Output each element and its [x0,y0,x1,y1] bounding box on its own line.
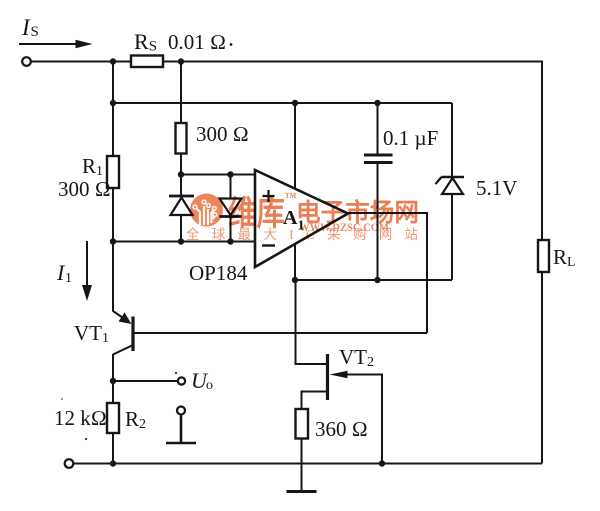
wire: diode D1 stubs [180,175,182,242]
wire: lower rail y280 [295,279,452,281]
ground: test point ground bar [166,415,196,444]
arrow I1 [86,241,88,287]
watermark logo circle [190,194,223,227]
svg-text:R2: R2 [125,407,146,432]
zener diode 5.1V [436,177,465,194]
wire: right side RL bottom to bottom-right corner [541,272,543,464]
resistor RS [131,56,163,68]
svg-text:0.01 Ω: 0.01 Ω [168,30,226,54]
wire: VT2 drain from lower rail [296,280,327,364]
svg-text:R1: R1 [82,154,103,179]
transistor VT1 [113,311,133,355]
terminal: input [22,57,31,66]
scan speck left margin [61,398,63,400]
resistor RL [538,240,549,272]
scan speck below 12k label [85,438,87,440]
wire: x295 supply drop behind op-amp [294,103,296,280]
wire: VT2 gate to ground rail [346,375,382,464]
svg-text:I: I [21,15,31,40]
svg-text:300 Ω: 300 Ω [58,177,111,201]
wire: diode D2 stubs [230,175,232,242]
wire: 360ohm to ground symbol [301,439,303,491]
VT1 emitter arrowhead [119,313,132,325]
svg-text:360 Ω: 360 Ω [315,417,368,441]
wire: supply rail y103 [113,102,452,104]
wire: x181 top rail to 300ohm resistor [180,62,182,124]
svg-text:1: 1 [65,271,72,286]
wire: op-amp output to x427 and down [348,213,427,333]
resistor 360ohm [296,409,309,439]
watermark [186,192,419,242]
wire: zener stubs x452 [451,103,453,280]
svg-text:5.1V: 5.1V [476,176,517,200]
resistor R2 [107,403,119,433]
op-amp U1 [255,170,348,267]
diode D2 [220,199,242,217]
wire: x113 VT1 collector to R2 [112,354,114,403]
terminal: Uo [178,377,185,384]
svg-text:VT2: VT2 [339,345,374,370]
wire: VT2 source to 360ohm [302,392,327,410]
svg-text:OP184: OP184 [189,261,248,285]
wire: x113 R2 bottom to ground rail [112,433,114,464]
svg-text:300 Ω: 300 Ω [196,122,249,146]
wire: top rail RS to top-right corner and down to RL [163,62,542,241]
wire: sense line x113 from top rail to R1 [112,62,114,157]
wire: x113 R1 bottom to VT1 emitter [112,188,114,312]
transistor VT2 [326,354,329,400]
wire: inverting input rail y241.5 [113,241,255,243]
wire: top rail input to RS [31,61,131,63]
ground: 360ohm ground bar [287,490,317,493]
arrow IS [19,43,78,45]
scan speck near Uo [175,372,177,374]
capacitor C 0.1uF [364,155,393,163]
terminal: test point [177,407,185,415]
wire: x181 300ohm to noninverting rail [180,154,182,175]
diode D1 [169,196,194,215]
terminal: bottom left [65,459,74,468]
resistor 300ohm upper [176,123,187,154]
svg-text:VT1: VT1 [74,321,109,346]
wire: capacitor stubs x377.5 [377,103,379,280]
wire: bottom ground rail [74,463,543,465]
svg-text:RL: RL [553,245,576,270]
svg-text:12 kΩ: 12 kΩ [54,406,107,430]
resistor R1 [107,156,119,188]
svg-text:0.1 µF: 0.1 µF [383,126,438,150]
op-amp minus pin mark [262,244,275,246]
wire: Uo tap [113,380,178,382]
svg-text:S: S [31,24,39,40]
svg-text:o: o [206,378,213,393]
wire: VT1 base line y333 [134,332,427,334]
svg-text:TM: TM [285,192,297,200]
VT2 gate arrowhead [330,371,348,379]
svg-text:RS: RS [134,29,157,55]
wire: noninverting input rail y174.5 [181,174,255,176]
op-amp plus pin mark [263,190,275,202]
